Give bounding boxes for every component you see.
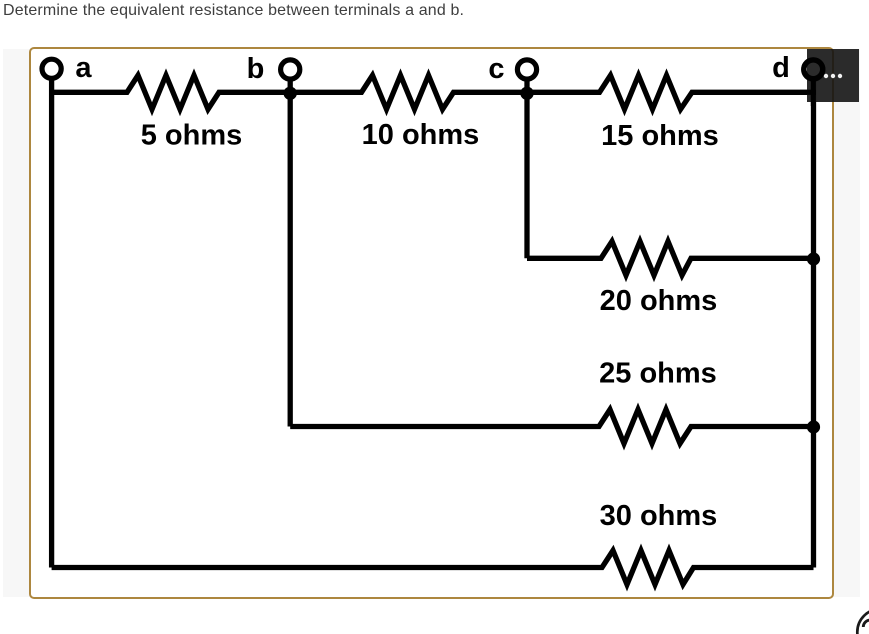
svg-text:d: d (772, 52, 790, 84)
svg-text:c: c (488, 53, 504, 85)
svg-text:15 ohms: 15 ohms (601, 120, 719, 152)
svg-text:20 ohms: 20 ohms (600, 285, 718, 317)
svg-text:b: b (247, 53, 265, 85)
svg-text:30 ohms: 30 ohms (600, 500, 718, 532)
svg-text:a: a (75, 52, 92, 84)
svg-text:25 ohms: 25 ohms (599, 357, 717, 389)
svg-text:5 ohms: 5 ohms (141, 120, 243, 152)
svg-text:10 ohms: 10 ohms (362, 119, 480, 151)
